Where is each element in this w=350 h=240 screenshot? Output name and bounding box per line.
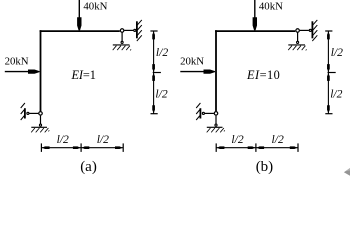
svg-text:EI=1: EI=1 bbox=[71, 68, 96, 82]
svg-text:20kN: 20kN bbox=[180, 56, 204, 68]
wire horizontal link to left wall (a) bbox=[30, 112, 39, 114]
svg-text:40kN: 40kN bbox=[83, 1, 107, 13]
wall support surface right (b) bbox=[311, 21, 313, 38]
wall support surface left (a) bbox=[24, 108, 26, 118]
svg-text:l/2: l/2 bbox=[97, 133, 109, 146]
node link pin at ground bottom-left (b) bbox=[215, 124, 217, 126]
node hinge pin bottom-left (b) bbox=[214, 112, 218, 116]
wire vertical link to ground bottom-left (b) bbox=[215, 116, 217, 124]
svg-text:l/2: l/2 bbox=[231, 133, 243, 146]
node link pin at ground (b) bbox=[297, 41, 299, 43]
load arrow 20kN (b) bbox=[180, 71, 204, 73]
wire horizontal link to wall (a) bbox=[124, 29, 133, 31]
wire column left member (b) bbox=[215, 30, 217, 111]
wall support surface left (b) bbox=[199, 108, 201, 118]
node hinge pin top-right (a) bbox=[120, 29, 124, 33]
node link pin at wall (b) bbox=[309, 29, 311, 31]
ground support surface under top-right link (a) bbox=[113, 44, 130, 46]
wire beam top member (a) bbox=[40, 30, 120, 32]
ground support surface under top-right link (b) bbox=[288, 44, 305, 46]
svg-text:EI=10: EI=10 bbox=[246, 68, 280, 82]
svg-text:l/2: l/2 bbox=[330, 87, 342, 100]
node link pin at left wall (b) bbox=[202, 112, 204, 114]
node link pin at ground bottom-left (a) bbox=[39, 124, 41, 126]
wire horizontal link to left wall (b) bbox=[205, 112, 214, 114]
svg-text:20kN: 20kN bbox=[5, 56, 29, 68]
wire column left member (a) bbox=[40, 30, 42, 111]
node hinge pin top-right (b) bbox=[296, 29, 300, 33]
node link pin at left wall (a) bbox=[27, 112, 29, 114]
wire vertical link to ground bottom-left (a) bbox=[40, 116, 42, 124]
node link pin at ground (a) bbox=[121, 41, 123, 43]
node hinge pin bottom-left (a) bbox=[39, 112, 43, 116]
dimension line vertical l/2 + l/2 (a) bbox=[153, 31, 155, 114]
wire horizontal link to wall (b) bbox=[300, 29, 309, 31]
gray cursor mark bottom-right corner bbox=[344, 168, 350, 176]
svg-text:l/2: l/2 bbox=[156, 46, 168, 59]
dimension line vertical l/2 + l/2 (b) bbox=[327, 31, 329, 114]
svg-text:l/2: l/2 bbox=[57, 133, 69, 146]
load arrow 20kN (a) bbox=[5, 71, 29, 73]
svg-text:l/2: l/2 bbox=[272, 133, 284, 146]
ground support surface under bottom-left link (a) bbox=[31, 126, 47, 128]
svg-text:l/2: l/2 bbox=[331, 46, 343, 59]
dimension line horizontal l/2 + l/2 (b) bbox=[216, 147, 298, 149]
svg-text:40kN: 40kN bbox=[259, 1, 283, 13]
node link pin at wall (a) bbox=[134, 29, 136, 31]
svg-text:(b): (b) bbox=[256, 159, 274, 175]
wire vertical link to ground (b) bbox=[297, 32, 299, 41]
svg-text:(a): (a) bbox=[80, 159, 97, 175]
wire vertical link to ground (a) bbox=[121, 32, 123, 41]
wall support surface right (a) bbox=[136, 21, 138, 38]
svg-text:l/2: l/2 bbox=[155, 87, 167, 100]
dimension line horizontal l/2 + l/2 (a) bbox=[41, 147, 123, 149]
ground support surface under bottom-left link (b) bbox=[207, 126, 223, 128]
load arrow 40kN (a) bbox=[78, 0, 80, 19]
wire beam top member (b) bbox=[215, 30, 295, 32]
load arrow 40kN (b) bbox=[254, 0, 256, 19]
